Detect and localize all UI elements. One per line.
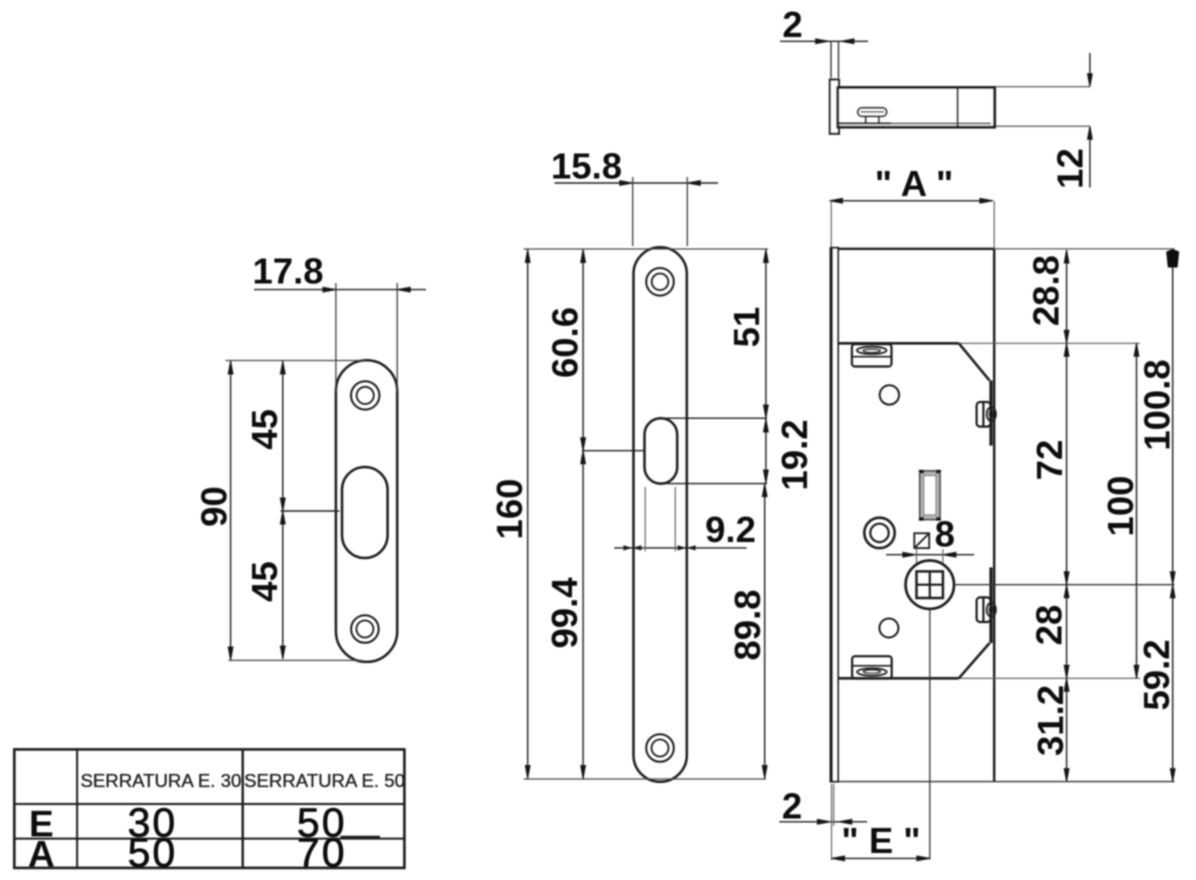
- mechanism plate right edge lower: [989, 567, 992, 643]
- dimension 89.8 bottom arrow: [762, 766, 767, 779]
- dimension E line: [832, 857, 930, 859]
- top view knob stem: [866, 116, 879, 123]
- case hole upper: [880, 385, 899, 404]
- dimension 2 bottom right arrow: [839, 819, 852, 824]
- top view bottom extension line: [996, 125, 1090, 127]
- strike plate mid reference line: [281, 510, 340, 512]
- dimension 100.8 line: [1172, 250, 1174, 585]
- dimension A right arrow: [980, 198, 993, 203]
- svg-text:12: 12: [1050, 148, 1091, 189]
- right clip upper ellipse: [987, 407, 996, 421]
- screw clip bottom-left box: [852, 656, 892, 678]
- dimension 2 top right arrow: [841, 39, 854, 44]
- svg-text:9.2: 9.2: [705, 509, 756, 550]
- svg-text:SERRATURA E. 50: SERRATURA E. 50: [244, 770, 405, 791]
- dimension 100.8 bottom arrow: [1170, 572, 1175, 585]
- dimension 2 bottom left arrow: [817, 819, 830, 824]
- case hole lower: [879, 619, 898, 638]
- svg-text:2: 2: [782, 4, 802, 45]
- dimension 9.2 left mark: [623, 545, 641, 550]
- dimension 100 line: [1136, 343, 1138, 678]
- lock case top extension line: [994, 248, 1174, 250]
- dimension 89.8 line: [764, 484, 766, 779]
- dimension 8 line: [886, 554, 974, 556]
- top view body outline: [838, 88, 995, 128]
- svg-text:50: 50: [128, 830, 178, 876]
- extension line faceplate left lower: [833, 784, 835, 826]
- table row separator 1: [14, 803, 404, 805]
- mechanism plate top edge: [839, 342, 959, 345]
- svg-text:28: 28: [1029, 605, 1070, 646]
- follower corner dot bottom-left: [919, 517, 924, 521]
- spindle follower circle: [906, 561, 954, 609]
- cylinder screw hole inner: [870, 524, 888, 542]
- extension line E left: [831, 784, 833, 860]
- extension line left of 17.8: [335, 283, 337, 393]
- spindle horizontal centre line: [954, 584, 1175, 586]
- follower corner dot top-right: [936, 470, 941, 474]
- extension line A right: [993, 201, 995, 249]
- dimension 72 top arrow: [1064, 343, 1069, 356]
- svg-text:89.8: 89.8: [727, 589, 768, 660]
- right clip upper box: [977, 402, 991, 427]
- dimension 15.8 right arrow: [687, 181, 700, 186]
- follower outer rectangle: [920, 471, 940, 520]
- dimension 45 lower bottom arrow: [280, 646, 285, 659]
- top view knob cap mid line: [861, 111, 885, 113]
- top view knob cap: [858, 108, 887, 117]
- screw clip bottom-left bar: [853, 665, 891, 667]
- dimension 2 bottom line: [779, 821, 867, 823]
- svg-text:60.6: 60.6: [545, 307, 586, 378]
- dimension 100.8 top arrow: [1166, 249, 1179, 268]
- right clip upper bar: [982, 403, 984, 427]
- dimension 8 right arrow: [943, 552, 956, 557]
- dimension 8 left arrow: [903, 552, 916, 557]
- dimension 2 top left arrow: [816, 39, 829, 44]
- dimension 19.2 line: [765, 418, 767, 483]
- extension line A left: [830, 201, 832, 247]
- screw clip bottom-left ellipse: [857, 668, 887, 675]
- top view top extension line: [996, 86, 1090, 88]
- dimension E right arrow: [917, 856, 930, 861]
- spindle square cross: [917, 571, 943, 598]
- svg-text:72: 72: [1029, 440, 1070, 481]
- spindle vertical centre line: [929, 609, 931, 860]
- dimension 160 bottom arrow: [525, 766, 530, 779]
- dimension 12 upper arrow: [1088, 74, 1093, 87]
- dimension 15.8 line: [555, 182, 719, 184]
- dimension 31.2 bottom arrow: [1064, 769, 1069, 782]
- svg-text:59.2: 59.2: [1136, 639, 1177, 710]
- table stray mark: [341, 836, 381, 839]
- faceplate slot bottom reference line: [661, 483, 767, 485]
- follower inner rectangle: [924, 476, 936, 515]
- dimension 31.2 line: [1066, 678, 1068, 781]
- faceplate slot mid reference line: [582, 450, 645, 452]
- dimension 45 upper top arrow: [280, 361, 285, 374]
- dimension 160 top arrow: [525, 250, 530, 263]
- dimension A line: [830, 200, 993, 202]
- dimension 51 top arrow: [764, 250, 769, 263]
- svg-text:SERRATURA E. 30: SERRATURA E. 30: [80, 770, 241, 791]
- strike plate latch slot: [342, 467, 388, 558]
- extension line slot left edge: [644, 487, 646, 551]
- dimension 99.4 bottom arrow: [581, 766, 586, 779]
- dimension 60.6 line: [582, 250, 584, 451]
- square-spindle symbol box: [914, 533, 929, 548]
- extension line faceplate bottom: [524, 778, 766, 780]
- faceplate slot top reference line: [661, 417, 767, 419]
- svg-text:90: 90: [194, 486, 235, 527]
- dimension 28.8 bottom arrow: [1064, 330, 1069, 343]
- top view inner bottom line dark segment: [839, 122, 891, 124]
- top view body inner bottom line: [839, 122, 991, 124]
- faceplate top screw hole inner: [652, 274, 669, 291]
- dimension 28 bottom arrow: [1064, 665, 1069, 678]
- dimension 17.8 line: [254, 289, 426, 291]
- dimension 59.2 bottom arrow: [1170, 769, 1175, 782]
- dimension 51 line: [765, 250, 767, 419]
- dimension 12 lower line: [1089, 129, 1091, 188]
- lock faceplate edge-on bar: [831, 248, 838, 782]
- dimension 60.6 top arrow: [581, 250, 586, 263]
- dimension 12 upper line: [1089, 53, 1091, 84]
- lock case bottom extension line: [836, 781, 1175, 783]
- strike plate outline: [336, 360, 397, 662]
- dimension E left arrow: [832, 856, 845, 861]
- dimension 28.8 line: [1066, 250, 1068, 343]
- dimension 31.2 top arrow: [1064, 678, 1069, 691]
- faceplate bottom screw hole inner: [652, 740, 669, 757]
- svg-text:2: 2: [782, 786, 802, 827]
- svg-text:51: 51: [726, 307, 767, 348]
- spindle square hole: [917, 571, 943, 598]
- extension line left of 15.8: [632, 177, 634, 246]
- right clip lower box: [977, 597, 991, 622]
- mechanism plate bottom edge: [839, 677, 959, 680]
- lock case right edge: [993, 249, 995, 782]
- follower corner dot top-left: [919, 470, 924, 474]
- right clip lower ellipse: [987, 603, 996, 617]
- dimension 17.8 left arrow: [323, 287, 336, 292]
- dimension 99.4 line: [582, 451, 584, 779]
- faceplate top screw hole outer: [646, 268, 674, 296]
- dimension A left arrow: [830, 198, 843, 203]
- extension line right of 17.8: [396, 283, 398, 393]
- dimension 89.8 top arrow: [762, 484, 767, 497]
- svg-text:160: 160: [489, 479, 530, 540]
- svg-text:100.8: 100.8: [1136, 359, 1177, 450]
- faceplate bottom screw hole outer: [646, 734, 674, 762]
- extension line slot right edge: [674, 487, 676, 551]
- svg-text:15.8: 15.8: [551, 146, 622, 187]
- strike plate bottom screw hole outer: [351, 615, 379, 643]
- screw clip top-left bar: [853, 356, 891, 358]
- extension line faceplate top: [524, 248, 768, 250]
- mechanism plate bottom chamfer: [959, 643, 990, 678]
- dimension 2 top line: [780, 40, 868, 42]
- top view faceplate bar: [830, 80, 839, 134]
- dimension 45 lower top arrow: [280, 511, 285, 524]
- screw clip top-left ellipse: [857, 347, 887, 354]
- svg-text:" E ": " E ": [841, 820, 920, 861]
- right clip lower bar: [982, 598, 984, 621]
- top view body inner vertical line: [957, 88, 959, 128]
- dimension 45 upper line: [282, 361, 284, 511]
- svg-text:70: 70: [297, 830, 347, 876]
- extension line strike plate bottom: [229, 659, 363, 661]
- mechanism plate bottom extension line: [959, 677, 1140, 679]
- svg-text:45: 45: [244, 409, 285, 450]
- dimension 100 bottom arrow: [1134, 665, 1139, 678]
- svg-text:17.8: 17.8: [252, 251, 323, 292]
- strike plate top screw hole outer: [351, 381, 379, 409]
- dimension 60.6 bottom arrow: [581, 438, 586, 451]
- faceplate slot: [645, 418, 678, 483]
- dimension 100 top arrow: [1134, 343, 1139, 356]
- dimension 19.2 bottom arrow: [764, 470, 769, 483]
- dimension 51 bottom arrow: [764, 405, 769, 418]
- screw clip top-left inner ellipse: [863, 349, 880, 352]
- dimension 72 line: [1066, 343, 1068, 584]
- dimension 59.2 top arrow: [1170, 585, 1175, 598]
- dimension 90 top arrow: [228, 361, 233, 374]
- table column separator 2: [241, 749, 243, 868]
- dimension 9.2 right mark: [678, 545, 696, 550]
- dimension 28.8 top arrow: [1064, 250, 1069, 263]
- follower corner dot bottom-right: [936, 517, 941, 521]
- extension line right of 15.8: [686, 177, 688, 246]
- dimension 90 line: [230, 361, 232, 660]
- svg-text:A: A: [28, 834, 55, 875]
- svg-text:99.4: 99.4: [544, 577, 585, 649]
- dimension 17.8 right arrow: [397, 287, 410, 292]
- svg-text:28.8: 28.8: [1025, 255, 1066, 326]
- square-spindle symbol diagonal: [914, 533, 929, 548]
- dimension 99.4 top arrow: [581, 451, 586, 464]
- strike plate top screw hole inner: [357, 387, 374, 404]
- right clip lower inner ellipse: [989, 606, 993, 613]
- svg-text:19.2: 19.2: [774, 419, 815, 490]
- dimension 45 lower line: [282, 511, 284, 659]
- mechanism plate right edge upper: [989, 380, 992, 445]
- svg-text:45: 45: [244, 561, 285, 602]
- dimension 72 bottom arrow: [1064, 572, 1069, 585]
- extension line spindle square right: [942, 549, 944, 565]
- strike plate bottom screw hole inner: [356, 621, 373, 638]
- extension line top view faceplate right: [838, 42, 840, 78]
- mechanism plate top extension line: [959, 342, 1140, 344]
- screw clip bottom-left inner ellipse: [863, 670, 880, 673]
- extension line strike plate top: [226, 360, 365, 362]
- extension line spindle square left: [916, 549, 918, 565]
- screw clip top-left box: [852, 344, 892, 366]
- svg-text:8: 8: [935, 514, 955, 555]
- lock case top edge: [838, 248, 994, 250]
- table row separator 2: [14, 838, 404, 840]
- mechanism plate top chamfer: [959, 343, 990, 380]
- dimension 90 bottom arrow: [228, 647, 233, 660]
- dimension 19.2 top arrow: [764, 419, 769, 432]
- right clip upper inner ellipse: [989, 411, 993, 418]
- dimension 9.2 line: [614, 547, 746, 549]
- dimension 15.8 left arrow: [620, 181, 633, 186]
- table outer border: [14, 749, 404, 868]
- dimension 160 line: [527, 250, 529, 779]
- extension line top view faceplate left: [830, 42, 832, 78]
- svg-text:100: 100: [1100, 476, 1141, 537]
- svg-text:31.2: 31.2: [1030, 685, 1071, 756]
- dimension 45 upper bottom arrow: [280, 498, 285, 511]
- table column separator 1: [76, 749, 78, 868]
- dimension 59.2 line: [1172, 585, 1174, 782]
- dimension 28 line: [1066, 585, 1068, 679]
- svg-text:" A ": " A ": [875, 163, 954, 204]
- lock faceplate edge-on thick left edge: [830, 248, 833, 782]
- cylinder screw hole outer: [864, 518, 894, 548]
- dimension 12 lower arrow: [1088, 126, 1093, 139]
- faceplate outline: [634, 247, 687, 782]
- dimension 28 top arrow: [1064, 585, 1069, 598]
